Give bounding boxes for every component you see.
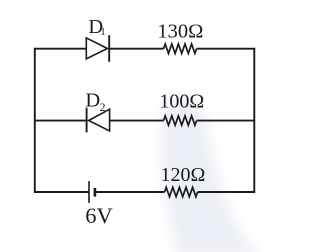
diode D1 cathode bar bbox=[108, 35, 110, 62]
battery short thick plate bbox=[94, 188, 97, 197]
diode D1 triangle bbox=[86, 38, 107, 59]
svg-text:D: D bbox=[85, 90, 100, 112]
svg-text:6V: 6V bbox=[85, 203, 113, 228]
svg-text:1: 1 bbox=[100, 26, 106, 38]
wire: left rail bbox=[34, 48, 36, 193]
wire: bottom branch left segment bbox=[34, 191, 89, 193]
svg-text:130Ω: 130Ω bbox=[157, 21, 203, 43]
diode D2 triangle bbox=[89, 109, 110, 131]
wire: middle branch mid segment bbox=[110, 120, 164, 122]
wire: right rail bbox=[253, 48, 255, 193]
resistor R3 120ohm zigzag bbox=[165, 187, 198, 196]
wire: bottom branch right segment bbox=[198, 191, 256, 193]
wire: top branch left segment bbox=[34, 48, 86, 50]
svg-text:120Ω: 120Ω bbox=[161, 164, 206, 186]
resistor R1 130ohm zigzag bbox=[164, 44, 197, 53]
wire: middle branch left segment bbox=[34, 120, 87, 122]
background watermark swoosh bbox=[161, 97, 262, 252]
battery long plate bbox=[88, 181, 90, 203]
svg-text:2: 2 bbox=[100, 100, 106, 114]
wire: middle branch right segment bbox=[197, 120, 256, 122]
wire: top branch mid segment bbox=[109, 48, 163, 50]
resistor R2 100ohm zigzag bbox=[164, 116, 197, 125]
wire: bottom branch mid segment bbox=[95, 191, 165, 193]
wire: top branch right segment bbox=[197, 48, 256, 50]
svg-text:100Ω: 100Ω bbox=[159, 91, 204, 113]
diode D2 cathode bar bbox=[86, 108, 88, 133]
